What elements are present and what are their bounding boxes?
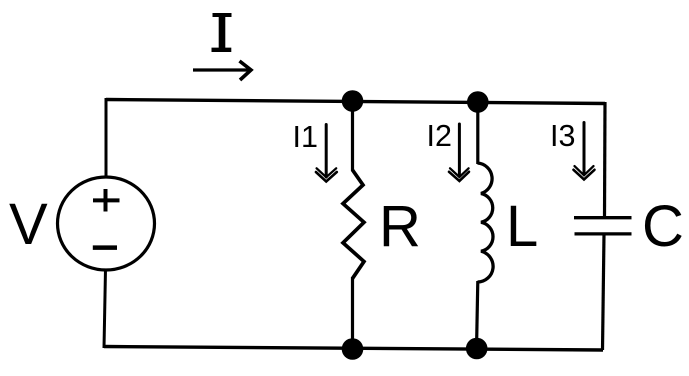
inductor L (coils) — [478, 163, 494, 282]
label I (total current) — [212, 14, 232, 50]
node: bottom junction resistor branch — [342, 338, 364, 360]
wire: resistor branch top lead — [351, 100, 354, 171]
svg-text:C: C — [642, 194, 684, 259]
node: bottom junction inductor branch — [466, 338, 488, 360]
capacitor C bottom plate — [575, 232, 632, 235]
wire: capacitor branch top lead (right side) — [603, 102, 607, 217]
arrow: I2 branch current — [449, 124, 469, 181]
wire: inductor branch bottom lead — [477, 281, 478, 350]
svg-text:R: R — [379, 194, 421, 259]
svg-text:I1: I1 — [293, 120, 318, 154]
svg-text:I3: I3 — [550, 119, 575, 153]
wire: left vertical, top corner to source + terminal — [105, 98, 108, 178]
svg-text:V: V — [9, 192, 48, 257]
resistor R (zigzag) — [343, 170, 364, 278]
node: top junction inductor branch — [467, 91, 489, 113]
wire: left vertical, source - terminal to bottom corner — [104, 269, 106, 348]
voltage source V (circle) — [58, 177, 155, 270]
wire: bottom horizontal bus — [104, 347, 603, 351]
node: top junction resistor branch — [342, 90, 364, 112]
polarity mark - — [93, 245, 117, 250]
capacitor C top plate — [574, 216, 632, 219]
svg-text:I2: I2 — [427, 119, 452, 153]
wire: capacitor branch bottom lead — [603, 234, 605, 350]
arrow: current I direction — [193, 61, 251, 80]
polarity mark + — [93, 189, 120, 212]
arrow: I1 branch current — [316, 125, 337, 182]
wire: inductor branch top lead — [476, 100, 479, 164]
wire: resistor branch bottom lead — [351, 277, 354, 350]
svg-text:L: L — [506, 194, 538, 259]
arrow: I3 branch current — [574, 123, 595, 180]
wire: top horizontal bus — [106, 100, 605, 104]
